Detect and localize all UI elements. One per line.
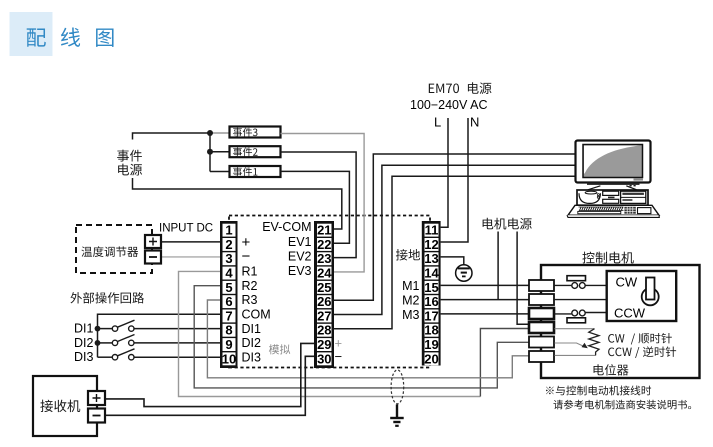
wire terminal 29 to receiver plus <box>105 343 314 406</box>
terminal strip 21-30 <box>314 221 334 368</box>
wire junction vertical <box>209 133 211 172</box>
wire M2 to connector 2 <box>441 299 529 301</box>
wire connector2 direct <box>554 299 607 301</box>
svg-text:6: 6 <box>225 294 232 309</box>
svg-text:1: 1 <box>225 223 232 238</box>
wire computer line 2 to terminal 27 <box>334 165 576 314</box>
wire R3 chain to connector 6 (grey) <box>207 300 529 378</box>
relay box 事件2 <box>230 146 281 157</box>
wire M1 to connector 1 <box>441 284 529 286</box>
svg-text:CW: CW <box>616 275 638 290</box>
label 接地 <box>396 249 420 261</box>
wire to 事件2 box <box>210 151 230 153</box>
svg-text:−: − <box>335 349 343 364</box>
wire to 事件1 box <box>210 171 230 173</box>
svg-text:DI1: DI1 <box>74 322 94 336</box>
contact switch CW <box>567 276 607 289</box>
svg-text:DI2: DI2 <box>74 336 94 350</box>
label 温度调节器 <box>81 246 138 257</box>
monitor <box>576 141 651 183</box>
label 事件1 <box>233 167 257 176</box>
svg-text:16: 16 <box>424 294 438 309</box>
label 电机电源 <box>483 218 532 230</box>
svg-text:26: 26 <box>317 294 331 309</box>
label 接收机 <box>40 400 80 412</box>
wire grey to 事件3 box <box>210 132 230 134</box>
terminal strip 11-20 <box>422 221 441 366</box>
title text 配线图 <box>27 28 114 47</box>
component 接收机 box <box>33 376 97 436</box>
svg-text:N: N <box>470 115 479 130</box>
svg-text:M3: M3 <box>402 308 419 322</box>
svg-text:EV2: EV2 <box>288 250 312 264</box>
svg-text:−: − <box>242 248 251 265</box>
svg-text:19: 19 <box>424 337 438 352</box>
svg-text:EV-COM: EV-COM <box>262 220 311 234</box>
wire 事件2 to terminal 23 <box>281 152 357 258</box>
svg-text:21: 21 <box>317 223 331 238</box>
wire 事件3 to terminal 24 (grey) <box>281 134 365 272</box>
svg-text:4: 4 <box>225 266 233 281</box>
label EM70 电源 <box>429 82 492 94</box>
ground symbol bottom <box>390 405 404 426</box>
svg-text:R3: R3 <box>242 293 258 307</box>
note line 1 <box>546 385 651 395</box>
potentiometer leads (grey) <box>555 328 595 330</box>
svg-text:10: 10 <box>222 351 236 366</box>
stand legs <box>588 186 637 190</box>
svg-text:30: 30 <box>317 351 331 366</box>
wire connector1 to contact1 <box>554 284 571 286</box>
terminal plus box of 温度调节器 <box>145 235 161 248</box>
svg-text:2: 2 <box>225 237 232 252</box>
node DI1 dot <box>95 326 101 332</box>
label 事件2 <box>233 147 258 156</box>
terminal enclosure dashed box <box>229 216 430 368</box>
connector 2 <box>529 294 554 305</box>
svg-text:22: 22 <box>317 237 331 252</box>
potentiometer zigzag <box>589 329 599 356</box>
svg-text:14: 14 <box>424 266 439 281</box>
svg-text:29: 29 <box>317 337 331 352</box>
wire 事件电源 bottom to terminal 21 <box>133 178 342 229</box>
labels left of strip 21-30 <box>262 220 311 278</box>
note line 2 <box>553 400 691 410</box>
terminal plus box of 接收机 <box>88 391 105 405</box>
svg-text:DI3: DI3 <box>242 350 262 364</box>
wire minus to terminal 3 (grey) <box>161 256 220 258</box>
wire L to terminal 11 <box>441 118 448 227</box>
earth symbol in circle <box>456 265 472 281</box>
svg-text:12: 12 <box>424 237 438 252</box>
svg-text:13: 13 <box>424 251 438 266</box>
svg-text:15: 15 <box>424 280 438 295</box>
svg-text:3: 3 <box>225 251 232 266</box>
wire M3 to connector 3 <box>441 313 529 315</box>
svg-text:M2: M2 <box>402 294 419 308</box>
wire R2 chain to connector 5 <box>194 286 529 388</box>
connector 3 <box>529 308 554 319</box>
svg-text:M1: M1 <box>402 279 419 293</box>
switch DI3 <box>98 349 221 360</box>
wire plus to terminal 2 <box>161 241 220 243</box>
wire 事件1 to terminal 22 <box>281 171 350 243</box>
label CCW / 逆时针 <box>608 346 676 358</box>
connector 1 <box>529 280 554 291</box>
svg-text:DI2: DI2 <box>242 336 262 350</box>
svg-text:COM: COM <box>242 308 271 322</box>
title highlight block <box>10 12 53 56</box>
connector 5 <box>529 337 554 348</box>
relay box 事件3 <box>230 127 281 138</box>
connector 4 <box>529 322 554 333</box>
node DI2 dot <box>95 340 101 346</box>
wire R1 chain to connector 4 (grey) <box>179 271 481 396</box>
label 控制电机 <box>582 252 633 264</box>
wire computer line 3 to terminal 28 <box>334 176 576 329</box>
component motor box outline <box>541 265 700 378</box>
node junction dot A <box>207 130 213 136</box>
computer icon <box>567 141 659 218</box>
relay box 事件1 <box>230 166 281 177</box>
wire N to terminal 12 <box>441 118 468 242</box>
component 温度调节器 dashed box <box>76 225 152 273</box>
label 外部操作回路 <box>70 292 144 303</box>
svg-text:5: 5 <box>225 280 232 295</box>
svg-text:18: 18 <box>424 323 438 338</box>
terminal strip 1-10 <box>220 221 238 368</box>
svg-text:25: 25 <box>317 280 331 295</box>
label 事件 (of 事件电源) <box>117 150 142 162</box>
svg-text:17: 17 <box>424 308 438 323</box>
svg-text:7: 7 <box>225 308 232 323</box>
wire COM bus <box>98 314 221 357</box>
terminal minus box of 接收机 <box>88 409 105 423</box>
keyboard <box>568 205 659 215</box>
contact switch CCW <box>554 310 607 323</box>
svg-text:EV1: EV1 <box>288 235 312 249</box>
svg-text:R2: R2 <box>242 279 258 293</box>
monitor base bar <box>587 183 640 185</box>
labels right of strip 1-10 <box>242 234 271 365</box>
label 事件3 <box>233 128 258 137</box>
svg-text:27: 27 <box>317 308 331 323</box>
svg-text:8: 8 <box>225 323 232 338</box>
wire 事件电源 top feed <box>133 133 211 140</box>
case <box>577 190 648 205</box>
svg-text:28: 28 <box>317 323 331 338</box>
svg-text:CCW: CCW <box>614 306 646 321</box>
svg-text:INPUT DC: INPUT DC <box>159 223 213 235</box>
motor knob symbol <box>642 278 659 306</box>
wire computer line 1 to terminal 26 <box>334 154 576 300</box>
connector 6 <box>529 351 554 362</box>
motor inner box CW/CCW <box>607 271 677 321</box>
svg-text:L: L <box>434 115 441 130</box>
label 模拟 <box>269 344 290 354</box>
svg-text:100−240V AC: 100−240V AC <box>410 98 488 112</box>
switch DI1 <box>98 320 221 331</box>
switch DI2 <box>98 335 221 346</box>
svg-text:DI1: DI1 <box>242 322 262 336</box>
svg-text:DI3: DI3 <box>74 350 94 364</box>
label 电位器 <box>594 364 629 375</box>
wire motor power 1 <box>497 232 499 300</box>
svg-text:9: 9 <box>225 337 232 352</box>
svg-text:EV3: EV3 <box>288 264 312 278</box>
node junction dot B <box>207 149 213 155</box>
terminal minus box of 温度调节器 <box>145 251 161 264</box>
potentiometer wiper arrow <box>555 343 588 349</box>
svg-text:R1: R1 <box>242 265 258 279</box>
svg-text:20: 20 <box>424 351 438 366</box>
svg-text:24: 24 <box>317 266 332 281</box>
svg-text:23: 23 <box>317 251 331 266</box>
wire motor power 2 to connector 4 <box>517 232 529 325</box>
svg-text:11: 11 <box>425 223 439 238</box>
shield dashed ellipse <box>391 370 404 404</box>
label CW / 顺时针 <box>608 333 672 345</box>
label 电源 <box>118 164 142 176</box>
wire R1 riser into connector 4 <box>480 329 529 397</box>
wire terminal 30 to receiver minus <box>105 356 314 415</box>
wire terminal 13 to earth <box>441 257 464 265</box>
